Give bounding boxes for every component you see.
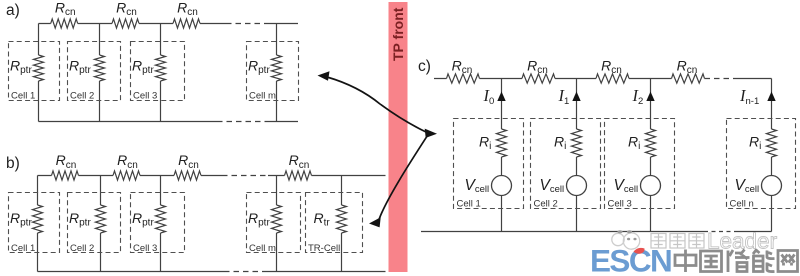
resistor Rcn (panel c #1)	[447, 74, 480, 83]
wire: panel a branch Cell 3	[160, 24, 162, 122]
current arrow I2	[646, 92, 654, 102]
resistor Rcn (panel c #2)	[522, 74, 555, 83]
resistor Rptr (Cell m panel b)	[272, 205, 282, 233]
cell box TR-Cell (panel b)	[306, 193, 363, 253]
watermark text 新能源 (outlined glyph shapes)	[651, 234, 704, 249]
wire: panel b branch TR-Cell	[341, 176, 343, 272]
wire: panel b branch Cell 3	[160, 176, 162, 272]
resistor Rptr (Cell 3 panel a)	[156, 55, 166, 81]
svg-text:TP front: TP front	[390, 7, 406, 61]
arrow curve: panel c to TR-Cell	[379, 136, 428, 222]
arrow curve: panel a to panel c (double-headed)	[327, 77, 426, 132]
wire: panel b branch Cell 1	[37, 176, 39, 272]
arrowhead toward TR-Cell	[369, 217, 381, 227]
wire: panel b top bus solid segments	[38, 175, 386, 177]
resistor Rptr (Cell 1 panel a)	[34, 55, 44, 81]
resistor Rcn (panel a #1)	[51, 19, 78, 28]
svg-text:Cell 2: Cell 2	[70, 90, 94, 101]
wire: panel c top bus dashed continuation	[705, 78, 734, 80]
cell box Cell 3 (panel b)	[131, 193, 185, 253]
svg-text:Cell 3: Cell 3	[133, 90, 157, 101]
cell box Cell 1 (panel a)	[9, 42, 60, 101]
wire: panel b branch Cell m	[276, 176, 278, 272]
wire: panel a bottom bus solid left	[39, 121, 218, 123]
voltage source Vcell (Cell 1 panel c)	[492, 176, 512, 196]
wire: panel c bottom bus right	[734, 231, 772, 233]
svg-text:TR-Cell: TR-Cell	[308, 243, 340, 254]
svg-text:Cell m: Cell m	[249, 243, 276, 254]
wire: panel a bottom bus right	[269, 121, 298, 123]
current arrow In-1	[767, 92, 775, 102]
wire: panel a branch Cell 1	[38, 24, 40, 122]
cell box Cell 1 (panel c)	[454, 119, 524, 209]
svg-text:Cell 2: Cell 2	[70, 243, 94, 254]
svg-text:b): b)	[6, 155, 20, 172]
wire: panel c branch Cell n	[771, 79, 773, 232]
svg-text:Cell n: Cell n	[730, 198, 754, 209]
voltage source Vcell (Cell 2 panel c)	[567, 176, 587, 196]
watermark text 中国储能网 (glyph shapes)	[675, 250, 798, 273]
svg-text:Cell 3: Cell 3	[608, 198, 632, 209]
resistor Ri (Cell n panel c)	[767, 129, 777, 157]
svg-text:Cell 1: Cell 1	[11, 90, 35, 101]
wire: panel c top bus solid segments	[434, 78, 772, 80]
resistor Ri (Cell 2 panel c)	[572, 129, 582, 157]
resistor Rptr (Cell m panel a)	[272, 55, 282, 81]
wire: panel a branch Cell 2	[99, 24, 101, 122]
svg-text:Cell 3: Cell 3	[133, 243, 157, 254]
svg-text:c): c)	[418, 58, 431, 75]
wire: panel a top bus solid segments	[39, 23, 227, 25]
wire: panel c branch Cell 1	[501, 79, 503, 232]
TP front bar	[389, 2, 408, 272]
current arrow I0	[497, 92, 505, 102]
cell box Cell n (panel c)	[727, 119, 796, 209]
resistor Rcn (panel c #4)	[672, 74, 705, 83]
resistor Rcn (panel b #4)	[285, 171, 312, 180]
svg-text:Cell 2: Cell 2	[534, 198, 558, 209]
watermark logo circles	[612, 233, 640, 249]
wire: panel c bottom bus dashed	[704, 231, 734, 233]
resistor Rcn (panel b #1)	[52, 171, 79, 180]
arrowhead toward panel a	[318, 71, 330, 81]
wire: panel a branch Cell m	[276, 24, 278, 122]
wire: panel c branch Cell 2	[576, 79, 578, 232]
cell box Cell 2 (panel a)	[68, 42, 121, 101]
wire: panel b bottom bus dashed	[224, 271, 266, 273]
resistor Rptr (Cell 2 panel a)	[95, 55, 105, 81]
cell box Cell m (panel a)	[247, 42, 299, 101]
resistor Ri (Cell 1 panel c)	[497, 129, 507, 157]
wire: panel b bottom bus solid left	[38, 271, 225, 273]
resistor Rcn (panel b #3)	[174, 171, 201, 180]
wire: panel c branch Cell 3	[650, 79, 652, 232]
svg-text:Cell m: Cell m	[249, 90, 276, 101]
wire: panel b top bus dashed continuation	[222, 175, 268, 177]
cell box Cell 3 (panel a)	[131, 42, 185, 101]
cell box Cell 3 (panel c)	[605, 119, 675, 209]
svg-text:Cell 1: Cell 1	[457, 198, 481, 209]
svg-text:ESCN: ESCN	[590, 243, 671, 276]
wire: panel c bottom bus solid left	[421, 231, 704, 233]
voltage source Vcell (Cell n panel c)	[762, 176, 782, 196]
resistor Rcn (panel b #2)	[113, 171, 140, 180]
resistor Rptr (Cell 1 panel b)	[33, 205, 43, 233]
resistor Rcn (panel a #2)	[112, 19, 139, 28]
resistor Rcn (panel c #3)	[596, 74, 629, 83]
wire: panel b branch Cell 2	[100, 176, 102, 272]
arrowhead toward panel c	[425, 129, 437, 138]
wire: panel a bottom bus dashed	[217, 121, 269, 123]
voltage source Vcell (Cell 3 panel c)	[641, 176, 661, 196]
svg-text:Cell 1: Cell 1	[11, 243, 35, 254]
wire: panel a top bus dashed continuation	[226, 23, 268, 25]
cell box Cell m (panel b)	[247, 193, 301, 253]
wire: panel a top bus right stub	[268, 23, 298, 25]
cell box Cell 1 (panel b)	[9, 193, 60, 253]
cell box Cell 2 (panel c)	[531, 119, 601, 209]
current arrow I1	[572, 92, 580, 102]
watermark logo eyes	[617, 230, 636, 240]
cell box Cell 2 (panel b)	[68, 193, 121, 253]
resistor Ri (Cell 3 panel c)	[646, 129, 656, 157]
resistor Rptr (Cell 2 panel b)	[96, 205, 106, 233]
resistor Rcn (panel a #3)	[173, 19, 200, 28]
watermark red accent on C	[634, 248, 645, 254]
svg-text:a): a)	[6, 2, 20, 19]
wire: panel b bottom bus right	[266, 271, 386, 273]
resistor Rtr (TR-Cell panel b)	[337, 205, 347, 233]
resistor Rptr (Cell 3 panel b)	[156, 205, 166, 233]
